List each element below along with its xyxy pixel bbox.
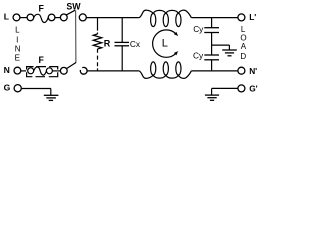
fuse F (neutral) left circle: [28, 68, 34, 74]
svg-text:L: L: [162, 37, 168, 49]
wire G' to ground: [212, 87, 238, 89]
svg-text:G: G: [4, 83, 11, 93]
capacitor Cx plates: [115, 41, 130, 43]
svg-text:R: R: [104, 39, 111, 49]
terminal G' circle: [238, 85, 245, 92]
wire fuse to box edge: [52, 70, 57, 72]
ground (left) bars: [44, 94, 59, 96]
svg-text:D: D: [240, 52, 246, 61]
svg-text:F: F: [39, 55, 45, 65]
resistor R bottom lead dashed: [97, 49, 99, 71]
switch SW lower right contact: [80, 67, 87, 74]
svg-text:N: N: [15, 45, 21, 54]
capacitor Cx bottom lead: [121, 46, 123, 71]
terminal G circle: [14, 85, 21, 92]
svg-text:L': L': [249, 12, 256, 22]
wire bottom rail switch to choke: [87, 70, 139, 72]
terminal N circle: [14, 67, 21, 74]
svg-text:N': N': [249, 66, 257, 76]
fuse F (line) right circle: [48, 14, 55, 21]
switch SW upper right contact: [79, 14, 86, 21]
resistor R top lead dashed: [97, 18, 99, 34]
capacitor Cy2 plates: [204, 54, 219, 56]
capacitor Cy2 bottom lead: [211, 60, 213, 71]
ground (Cy midpoint) stem: [228, 45, 230, 50]
ground (right) bars: [205, 94, 219, 96]
wire L terminal to fuse: [20, 17, 27, 19]
svg-text:Cx: Cx: [130, 39, 141, 49]
fuse holder box (neutral): [27, 67, 58, 77]
svg-text:A: A: [241, 42, 247, 51]
switch SW upper left contact: [60, 14, 67, 21]
svg-text:I: I: [16, 36, 18, 45]
svg-text:E: E: [15, 53, 20, 62]
terminal L' circle: [238, 14, 245, 21]
choke arrow head top: [174, 32, 178, 36]
terminal L circle: [13, 14, 20, 21]
wire bottom rail choke to N': [191, 70, 238, 72]
ground (left) stem: [50, 89, 52, 96]
wire fuse to switch: [55, 17, 61, 19]
capacitor Cx top lead: [121, 18, 123, 43]
wire N terminal to fuse box: [21, 70, 26, 72]
svg-text:G': G': [249, 84, 257, 94]
svg-text:N: N: [4, 65, 10, 75]
svg-text:L: L: [15, 26, 20, 35]
svg-text:F: F: [39, 4, 45, 14]
wire G to ground: [21, 88, 51, 90]
wire top rail switch to choke: [86, 17, 139, 19]
choke arrow head bottom: [174, 51, 178, 55]
svg-text:L: L: [4, 11, 9, 21]
terminal N' circle: [238, 67, 245, 74]
choke rotation arrow arc: [153, 30, 176, 57]
wire top rail choke to L': [191, 17, 238, 19]
fuse F (neutral) right circle: [46, 68, 52, 74]
ground (Cy midpoint) bars: [222, 49, 237, 51]
resistor R zigzag: [93, 34, 102, 49]
capacitor Cy1 top lead: [211, 18, 213, 28]
wire box to switch: [58, 70, 61, 72]
fuse F (line) wave element: [34, 14, 48, 22]
fuse F (line) left circle: [27, 14, 34, 21]
fuse F (neutral) wave element: [34, 67, 47, 75]
svg-text:Cy: Cy: [193, 24, 204, 34]
choke L bottom winding: [139, 62, 192, 79]
switch SW mechanical link: [75, 10, 77, 62]
wire Cy midpoint to ground: [212, 44, 230, 46]
switch SW lower blade: [66, 62, 76, 68]
capacitor Cy1 plates: [204, 27, 219, 29]
svg-text:Cy: Cy: [193, 51, 204, 61]
ground (right) stem: [211, 88, 213, 95]
svg-text:SW: SW: [66, 2, 81, 12]
switch SW lower left contact: [60, 67, 67, 74]
wire between Cy1 and Cy2: [211, 33, 213, 55]
switch SW upper blade: [66, 10, 75, 15]
choke L top winding: [139, 10, 192, 27]
